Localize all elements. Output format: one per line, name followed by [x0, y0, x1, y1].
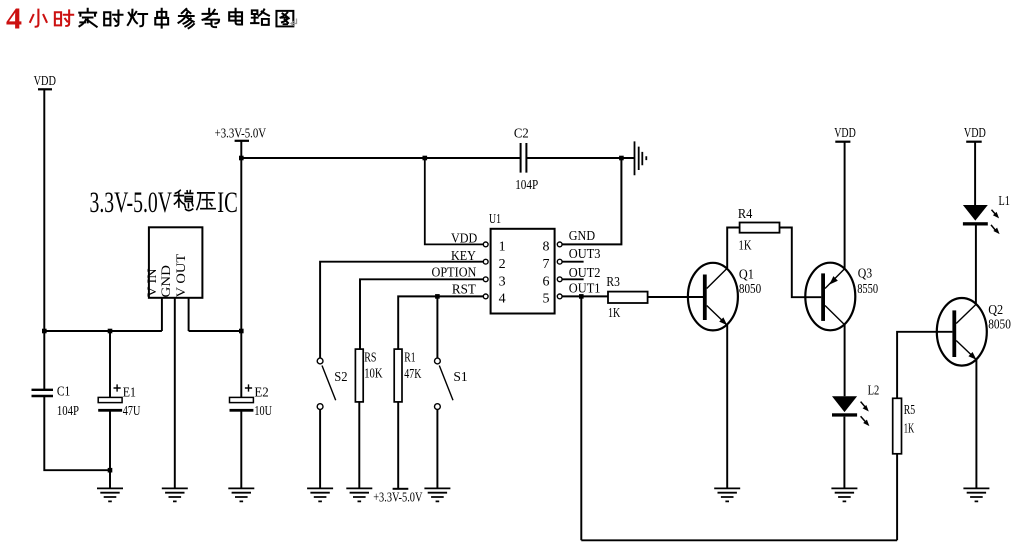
wire VDD to Q3 emitter [844, 142, 846, 268]
wire rail B right segment [189, 330, 242, 332]
capacitor E1 designator [123, 386, 136, 401]
svg-text:Q1: Q1 [739, 267, 754, 282]
junction rail B / +3.3V vertical [239, 329, 244, 334]
svg-text:2: 2 [499, 257, 506, 272]
resistor R5 designator [904, 403, 915, 418]
node VDD above Q3 [834, 126, 856, 141]
wire regulator GND pin [174, 298, 176, 488]
resistor R4 designator [738, 207, 753, 222]
switch S1 [435, 358, 454, 409]
U1 pin number 2 [499, 257, 506, 272]
wire rail A right segment [527, 157, 634, 159]
junction C1-E1 bottom wire [108, 468, 113, 473]
wire OPTION net [360, 279, 483, 349]
svg-text:Q3: Q3 [858, 267, 873, 282]
wire S1 bottom lead [436, 410, 438, 488]
svg-text:4: 4 [6, 1, 22, 36]
capacitor C1 [32, 390, 54, 396]
transistor Q2 value 8050 [988, 318, 1011, 333]
wire L2 to ground [843, 417, 845, 488]
resistor R1 47K [394, 349, 402, 402]
svg-text:+3.3V-5.0V: +3.3V-5.0V [215, 126, 267, 141]
regulator pin label GND [158, 265, 173, 297]
wire U1 pin8 GND riser [562, 158, 621, 244]
junction rail A / U1 GND riser [619, 156, 624, 161]
capacitor E2 (electrolytic) [230, 384, 254, 411]
U1 pin circles left [483, 242, 488, 299]
wire U1 pin7 stub [562, 261, 584, 263]
resistor R4 1K [740, 223, 780, 233]
wire VDD-left vertical [43, 90, 45, 331]
wire R5 top lead to Q2 base [897, 332, 952, 399]
svg-text:1K: 1K [739, 238, 752, 253]
svg-text:V IN: V IN [144, 268, 159, 297]
power +3.3V-5.0V terminal bar top [235, 140, 249, 142]
U1 pin number 8 [543, 240, 550, 255]
U1 pin label GND [569, 229, 595, 244]
transistor Q3 value 8550 [857, 282, 878, 297]
switch S1 designator [453, 370, 467, 385]
junction rail A / +3.3V vertical [239, 156, 244, 161]
U1 pin label VDD [451, 231, 477, 246]
svg-text:Q2: Q2 [988, 303, 1003, 318]
svg-text:KEY: KEY [451, 249, 476, 264]
U1 pin label OUT2 [569, 266, 601, 281]
resistor R1 value 47K [404, 367, 421, 382]
wire S1 drop from RST [436, 296, 438, 358]
transistor Q2 NPN 8050 [937, 298, 987, 366]
svg-text:1K: 1K [608, 306, 620, 321]
wire OUT1 drop to bottom rail [580, 296, 582, 540]
wire R4 right to Q3 base [780, 228, 822, 298]
U1 pin number 7 [543, 257, 550, 272]
wire Q1 emitter to ground [726, 325, 728, 488]
svg-text:R3: R3 [606, 275, 620, 290]
svg-text:VDD: VDD [964, 126, 986, 141]
node +3.3V-5.0V bottom [373, 491, 422, 506]
junction rail B / E1 [108, 329, 113, 334]
svg-text:3: 3 [499, 274, 506, 289]
wire Q1 collector riser [727, 228, 739, 269]
ground L2 [831, 488, 857, 501]
wire C1 bottom lead [44, 397, 110, 470]
ground S1 [424, 488, 450, 501]
svg-text:R5: R5 [904, 403, 915, 418]
svg-text:V OUT: V OUT [173, 254, 188, 298]
LED L2 [832, 396, 871, 427]
transistor Q3 designator [858, 267, 873, 282]
ground symbols [97, 488, 989, 501]
wire rail A left segment [241, 157, 520, 159]
junction RST / S1 drop [435, 294, 440, 299]
wire C1 top lead [43, 331, 45, 389]
wire VDD to L1 [974, 142, 976, 205]
resistor R3 1K [608, 292, 648, 303]
svg-text:104P: 104P [57, 404, 79, 419]
wire R3 to Q1 base [648, 296, 703, 298]
power VDD bar above Q3 [835, 141, 850, 143]
svg-text:IC: IC [217, 186, 238, 219]
transistor Q1 designator [739, 267, 754, 282]
capacitor C2 value 104P [515, 178, 538, 193]
resistor R5 value 1K [904, 421, 915, 436]
U1 pin label OUT1 [569, 281, 601, 296]
svg-text:OUT2: OUT2 [569, 266, 601, 281]
U1 pin number 4 [499, 292, 506, 307]
svg-text:47U: 47U [123, 404, 141, 419]
svg-text:GND: GND [158, 265, 173, 297]
svg-text:+3.3V-5.0V: +3.3V-5.0V [373, 491, 422, 506]
wire E1 bottom lead [109, 412, 111, 488]
capacitor E2 value 10U [254, 404, 272, 419]
resistor R3 value 1K [608, 306, 620, 321]
U1 pin label KEY [451, 249, 476, 264]
wire +3.3V vertical [240, 142, 242, 332]
capacitor E1 value 47U [123, 404, 141, 419]
ground E1 [97, 488, 123, 501]
svg-text:VDD: VDD [34, 74, 56, 89]
wire OUT1 net pin5 to R3 [562, 295, 608, 297]
svg-text:10K: 10K [364, 367, 382, 382]
transistor Q1 NPN 8050 [688, 263, 738, 331]
title text: 4 小时定时灯串参考电路图 [6, 1, 297, 36]
svg-text:5: 5 [543, 292, 550, 307]
ground Q2 emitter [963, 488, 989, 501]
svg-text:OUT3: OUT3 [569, 247, 601, 262]
wire R5 bottom lead [896, 454, 898, 541]
svg-text:S2: S2 [334, 370, 347, 385]
wire E2 top lead [240, 331, 242, 397]
resistor RS designator [364, 350, 376, 365]
capacitor C2 designator [514, 127, 529, 142]
svg-text:RST: RST [452, 282, 476, 297]
svg-text:3.3V-5.0V: 3.3V-5.0V [90, 186, 173, 219]
node VDD above L1 [964, 126, 986, 141]
svg-text:7: 7 [543, 257, 550, 272]
wire S2 bottom lead [319, 410, 321, 488]
resistor RS 10K [355, 349, 363, 402]
svg-text:VDD: VDD [834, 126, 856, 141]
LED L1 designator [999, 194, 1010, 209]
regulator pin label V IN [144, 268, 159, 297]
ground regulator [162, 488, 188, 501]
svg-text:VDD: VDD [451, 231, 477, 246]
wire KEY net [320, 262, 483, 359]
IC U1 designator [489, 212, 501, 227]
svg-text:1: 1 [499, 240, 506, 255]
svg-text:8: 8 [543, 240, 550, 255]
resistor R3 designator [606, 275, 620, 290]
wire E1 top lead [109, 331, 111, 397]
junction rail A / U1 VDD drop [423, 156, 428, 161]
earth ground right of C2 [635, 141, 647, 175]
transistor Q3 PNP 8550 [805, 263, 855, 331]
resistor R5 1K [893, 398, 902, 454]
U1 pin label OPTION [432, 265, 477, 280]
paragraph return mark [291, 19, 297, 26]
svg-text:6: 6 [543, 274, 550, 289]
wire U1 pin6 stub [562, 278, 584, 280]
svg-text:C1: C1 [57, 384, 70, 399]
svg-text:L1: L1 [999, 194, 1010, 209]
wire bottom rail [581, 539, 897, 541]
wire Q2 emitter to ground [975, 360, 977, 488]
svg-text:OPTION: OPTION [432, 265, 477, 280]
U1 pin number 1 [499, 240, 506, 255]
power VDD top-left [38, 88, 52, 90]
svg-text:8050: 8050 [739, 282, 761, 297]
regulator label 3.3V-5.0V稳压IC [90, 186, 238, 219]
ground RS [346, 488, 372, 501]
switch S2 designator [334, 370, 347, 385]
wire L1 to Q2 collector [975, 226, 977, 305]
capacitor E2 designator [254, 386, 268, 401]
svg-text:1K: 1K [904, 421, 915, 436]
wire regulator VOUT pin [188, 298, 190, 331]
svg-text:S1: S1 [453, 370, 467, 385]
wire RST net [398, 296, 483, 349]
switch S2 [317, 358, 336, 409]
resistor R4 value 1K [739, 238, 752, 253]
IC U1 box [491, 229, 555, 314]
capacitor C2 [521, 143, 527, 173]
junction rail B / VDD-left [42, 329, 47, 334]
capacitor C1 value 104P [57, 404, 79, 419]
svg-text:U1: U1 [489, 212, 501, 227]
U1 pin number 6 [543, 274, 550, 289]
svg-text:8050: 8050 [988, 318, 1011, 333]
svg-text:GND: GND [569, 229, 595, 244]
U1 pin number 3 [499, 274, 506, 289]
node +3.3V-5.0V top [215, 126, 267, 141]
U1 pin circles right [557, 242, 562, 299]
svg-text:E1: E1 [123, 386, 136, 401]
svg-text:47K: 47K [404, 367, 421, 382]
svg-text:L2: L2 [868, 384, 880, 399]
resistor R1 designator [404, 350, 415, 365]
U1 pin number 5 [543, 292, 550, 307]
capacitor C1 designator [57, 384, 70, 399]
transistor Q1 value 8050 [739, 282, 761, 297]
ground Q1 emitter [714, 488, 740, 501]
svg-text:C2: C2 [514, 127, 529, 142]
svg-text:R1: R1 [404, 350, 415, 365]
wire regulator VIN pin [161, 298, 163, 331]
svg-text:RS: RS [364, 350, 376, 365]
ground E2 [228, 488, 254, 501]
svg-text:4: 4 [499, 292, 506, 307]
capacitor E1 (electrolytic) [98, 384, 122, 411]
junction OUT1 / bottom drop [579, 294, 584, 299]
wire U1 pin1 VDD drop [425, 158, 484, 244]
power VDD bar above L1 [966, 141, 982, 143]
transistor Q2 designator [988, 303, 1003, 318]
wire R1 bottom lead [397, 402, 399, 488]
svg-text:104P: 104P [515, 178, 538, 193]
svg-text:8550: 8550 [857, 282, 878, 297]
wire E2 bottom lead [240, 412, 242, 488]
svg-text:OUT1: OUT1 [569, 281, 601, 296]
regulator pin label V OUT [173, 254, 188, 298]
wire rail B left segment [44, 330, 162, 332]
wire RS bottom lead [358, 402, 360, 488]
power +3.3V-5.0V terminal bar bottom [393, 488, 409, 490]
ground S2 [307, 488, 333, 501]
U1 pin label RST [452, 282, 476, 297]
svg-text:E2: E2 [254, 386, 268, 401]
U1 pin label OUT3 [569, 247, 601, 262]
wire Q3 collector to L2 [844, 325, 846, 397]
resistor RS value 10K [364, 367, 382, 382]
node VDD top-left [34, 74, 56, 89]
svg-text:R4: R4 [738, 207, 753, 222]
svg-text:10U: 10U [254, 404, 272, 419]
regulator IC box [149, 227, 203, 297]
LED L1 [963, 205, 1002, 236]
LED L2 designator [868, 384, 880, 399]
